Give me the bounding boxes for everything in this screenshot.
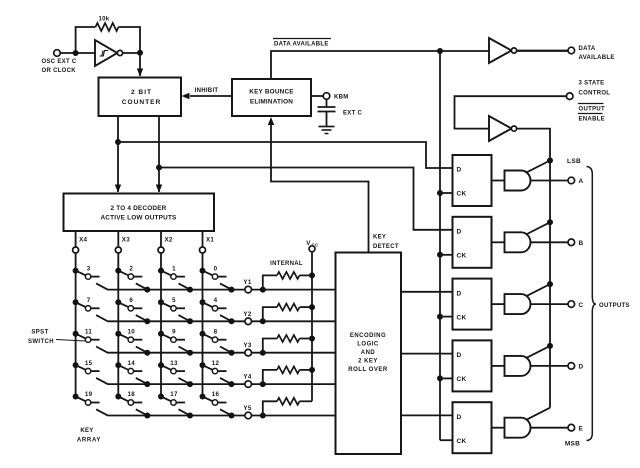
svg-text:ARRAY: ARRAY (77, 438, 101, 444)
svg-text:D: D (457, 352, 462, 359)
svg-text:INTERNAL: INTERNAL (270, 261, 303, 267)
svg-text:9: 9 (172, 328, 176, 335)
svg-text:EXT C: EXT C (343, 111, 363, 117)
svg-text:DATA AVAILABLE: DATA AVAILABLE (274, 42, 329, 48)
svg-text:AND: AND (361, 350, 376, 356)
svg-text:D: D (457, 167, 462, 174)
svg-text:X2: X2 (165, 237, 173, 244)
svg-text:X4: X4 (79, 237, 87, 244)
svg-text:D: D (457, 414, 462, 421)
svg-text:OR CLOCK: OR CLOCK (42, 68, 77, 74)
svg-text:CK: CK (457, 314, 467, 321)
svg-text:CC: CC (312, 243, 319, 248)
svg-text:0: 0 (214, 265, 218, 272)
svg-text:Y2: Y2 (243, 311, 251, 318)
svg-text:17: 17 (170, 391, 178, 398)
svg-text:CK: CK (457, 191, 467, 198)
svg-text:ACTIVE LOW OUTPUTS: ACTIVE LOW OUTPUTS (100, 215, 177, 222)
svg-text:10: 10 (128, 328, 136, 335)
svg-text:LOGIC: LOGIC (357, 342, 379, 348)
svg-text:6: 6 (129, 297, 133, 304)
svg-text:Y3: Y3 (243, 342, 251, 349)
svg-text:OSC EXT C: OSC EXT C (42, 59, 77, 65)
svg-text:KBM: KBM (334, 95, 349, 101)
svg-text:5: 5 (172, 297, 176, 304)
svg-text:DETECT: DETECT (373, 244, 399, 250)
svg-text:Y1: Y1 (243, 279, 251, 286)
svg-text:10k: 10k (99, 17, 110, 23)
svg-text:OUTPUTS: OUTPUTS (599, 303, 630, 309)
svg-text:11: 11 (85, 328, 92, 335)
svg-text:CK: CK (457, 253, 467, 260)
svg-text:KEY: KEY (80, 428, 93, 434)
svg-text:14: 14 (128, 360, 136, 367)
svg-text:X1: X1 (206, 237, 214, 244)
svg-text:4: 4 (214, 297, 218, 304)
svg-text:Y4: Y4 (243, 374, 251, 381)
svg-text:SPST: SPST (31, 330, 48, 336)
svg-text:18: 18 (128, 391, 136, 398)
svg-text:INHIBIT: INHIBIT (195, 88, 219, 94)
svg-text:SWITCH: SWITCH (28, 339, 54, 345)
svg-text:ENABLE: ENABLE (579, 117, 605, 123)
svg-text:KEY BOUNCE: KEY BOUNCE (249, 89, 294, 96)
svg-text:Y5: Y5 (243, 405, 251, 412)
svg-text:1: 1 (172, 265, 176, 272)
svg-text:B: B (579, 240, 584, 247)
svg-text:2: 2 (129, 265, 133, 272)
svg-text:OUTPUT: OUTPUT (579, 107, 605, 113)
svg-text:2 KEY: 2 KEY (358, 359, 378, 365)
svg-text:2 TO 4 DECODER: 2 TO 4 DECODER (111, 205, 167, 212)
svg-text:X3: X3 (122, 237, 130, 244)
svg-text:D: D (457, 229, 462, 236)
svg-text:CONTROL: CONTROL (579, 91, 611, 97)
svg-text:E: E (579, 425, 584, 432)
svg-text:LSB: LSB (567, 158, 581, 165)
svg-text:ENCODING: ENCODING (350, 333, 386, 339)
svg-text:16: 16 (212, 391, 220, 398)
svg-text:CK: CK (457, 438, 467, 445)
svg-text:7: 7 (87, 297, 91, 304)
svg-text:D: D (579, 364, 584, 371)
svg-text:CK: CK (457, 376, 467, 383)
svg-text:ELIMINATION: ELIMINATION (250, 99, 293, 106)
svg-text:D: D (457, 290, 462, 297)
svg-text:12: 12 (212, 360, 220, 367)
svg-text:3: 3 (87, 265, 91, 272)
svg-text:8: 8 (214, 328, 218, 335)
svg-text:DATA: DATA (579, 46, 596, 52)
svg-text:15: 15 (85, 360, 93, 367)
svg-text:19: 19 (85, 391, 93, 398)
svg-text:A: A (579, 178, 584, 185)
svg-text:MSB: MSB (565, 441, 580, 448)
svg-text:C: C (579, 302, 584, 309)
svg-text:COUNTER: COUNTER (122, 99, 162, 106)
svg-text:3 STATE: 3 STATE (579, 81, 605, 87)
svg-text:ROLL OVER: ROLL OVER (348, 367, 388, 373)
svg-text:13: 13 (170, 360, 178, 367)
svg-text:AVAILABLE: AVAILABLE (579, 55, 615, 61)
svg-text:2 BIT: 2 BIT (131, 89, 152, 96)
svg-text:KEY: KEY (373, 235, 386, 241)
